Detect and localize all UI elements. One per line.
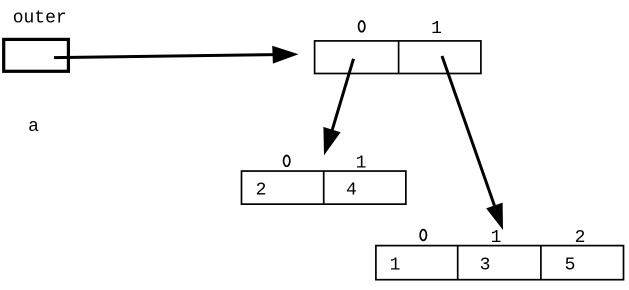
- svg-text:3: 3: [480, 256, 491, 276]
- arrow from A[0] to array B: [331, 59, 354, 134]
- svg-text:1: 1: [356, 153, 367, 173]
- arrow from outer box to array A: [54, 55, 275, 58]
- array C divider 2: [540, 246, 542, 280]
- arrow from A[1] to array C: [442, 56, 494, 206]
- svg-text:1: 1: [431, 19, 442, 39]
- svg-text:2: 2: [256, 181, 267, 201]
- svg-text:2: 2: [575, 228, 586, 248]
- array C divider 1: [457, 246, 459, 280]
- array B (list [2, 4]): [242, 171, 406, 204]
- array A index 0: [359, 21, 365, 32]
- array A (outer list): [315, 41, 481, 74]
- svg-text:a: a: [28, 117, 39, 137]
- svg-text:1: 1: [491, 228, 502, 248]
- svg-text:4: 4: [346, 181, 357, 201]
- array C index 0: [420, 230, 426, 241]
- array B divider: [323, 171, 325, 204]
- svg-text:outer: outer: [13, 9, 67, 29]
- svg-text:5: 5: [565, 256, 576, 276]
- array A divider: [398, 41, 400, 74]
- outer box: [4, 39, 69, 71]
- array C (list [1, 3, 5]): [376, 246, 624, 280]
- svg-text:1: 1: [390, 256, 401, 276]
- array B index 0: [284, 156, 290, 167]
